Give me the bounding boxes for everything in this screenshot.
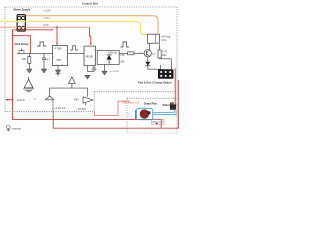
capacitor C2 bbox=[88, 66, 97, 72]
svg-text:(OKI): (OKI) bbox=[161, 39, 167, 42]
IC U1 555 timer bbox=[53, 46, 68, 66]
motor shaft bbox=[148, 111, 150, 114]
svg-text:4.7K: 4.7K bbox=[162, 50, 168, 54]
wire R3 bottom to switch bbox=[160, 58, 172, 69]
wire pink notch feed bbox=[95, 101, 130, 115]
buzzer triangle bbox=[46, 96, 54, 100]
motor M1 body bbox=[140, 110, 149, 119]
resistor R3 bbox=[158, 50, 161, 58]
diode D2 bbox=[107, 55, 112, 65]
svg-text:+12V in: +12V in bbox=[17, 99, 26, 102]
buzzer stem bbox=[52, 100, 54, 113]
wire click delay rail bbox=[17, 52, 53, 54]
svg-text:28BYJ-48: 28BYJ-48 bbox=[152, 121, 164, 124]
switch S2 DPDT fwd-rev bbox=[158, 69, 174, 79]
pink label box bbox=[152, 120, 165, 125]
pin stub 555 left bbox=[51, 52, 53, 54]
wire sense out bbox=[119, 52, 127, 54]
wire red switch right down bbox=[174, 68, 176, 102]
giant pan box dashed border left bbox=[126, 98, 128, 133]
wire red bottom bus bbox=[53, 80, 178, 128]
svg-text:+4.2V out: +4.2V out bbox=[55, 107, 66, 110]
motor M1 box bbox=[136, 108, 152, 119]
svg-text:555: 555 bbox=[57, 58, 62, 62]
pin ticks U2 bbox=[84, 50, 95, 60]
svg-text:Control Box: Control Box bbox=[82, 2, 98, 6]
ground arrow U2 bbox=[85, 75, 90, 79]
ground zener D1 bbox=[55, 70, 60, 76]
control box dashed border notch bbox=[93, 92, 95, 112]
triangle device T2 bbox=[69, 77, 76, 88]
wire red mains left rail bbox=[13, 30, 162, 128]
pin stub U2 bottom1 bbox=[87, 66, 89, 72]
ground symbol bottom left bbox=[7, 125, 11, 131]
diode D3 bbox=[145, 57, 160, 69]
svg-text:OK But: OK But bbox=[78, 108, 86, 111]
control box dashed border bottom-left bbox=[5, 110, 94, 112]
pin stub sense bottom bbox=[104, 64, 106, 71]
wire red branch to click delay bbox=[13, 30, 31, 54]
resistor R1 bbox=[28, 57, 31, 64]
svg-text:MPS: MPS bbox=[139, 53, 144, 55]
battery holder B1 bbox=[170, 103, 176, 110]
wire salmon drop to IC2 bbox=[90, 27, 91, 43]
wire reg to Q1 bbox=[148, 43, 150, 50]
pulse waveform glyph 3 bbox=[121, 42, 130, 47]
wire blue motor to battery A bbox=[153, 110, 175, 113]
control box dashed border top bbox=[5, 6, 177, 8]
svg-text:= ground: = ground bbox=[12, 128, 22, 131]
net +5.2V orange bus bbox=[21, 16, 158, 34]
svg-text:no LOPR: no LOPR bbox=[110, 71, 119, 73]
switch S1 pushbutton bbox=[19, 49, 25, 54]
wire to D42 bbox=[87, 88, 89, 97]
svg-text:4 7&8: 4 7&8 bbox=[55, 47, 62, 51]
net GND salmon bus bbox=[0, 26, 90, 28]
junction dot bbox=[12, 99, 14, 101]
transistor T1 device bbox=[23, 77, 34, 92]
ground arrow sense bbox=[102, 71, 107, 75]
wire red stub to border left bbox=[6, 99, 13, 101]
junction dot motor bbox=[156, 123, 158, 125]
svg-text:15k: 15k bbox=[120, 60, 125, 64]
pin ticks 555 bbox=[53, 50, 68, 66]
ground arrow R1 bbox=[27, 69, 32, 73]
arrowhead at IC2 bbox=[90, 43, 92, 45]
svg-text:4-pin motor +5V: 4-pin motor +5V bbox=[122, 102, 140, 105]
wire 555 out to IC2 bbox=[68, 52, 85, 54]
junction dot bbox=[56, 26, 58, 28]
wire R1 bottom bbox=[28, 63, 30, 69]
op-amp D42 bbox=[83, 97, 93, 106]
svg-text:4.8V ok: 4.8V ok bbox=[108, 51, 117, 55]
pulse waveform glyph 1 bbox=[37, 42, 47, 46]
net +5V yellow bus bbox=[0, 22, 148, 35]
ground arrow C1 bbox=[41, 69, 46, 73]
wire R2 to Q1 bbox=[134, 52, 144, 54]
wire mid bus bbox=[50, 88, 88, 96]
svg-text:Res: Res bbox=[162, 53, 167, 57]
capacitor C1 bbox=[42, 53, 46, 69]
svg-text:GND: GND bbox=[43, 23, 49, 27]
wire blue motor to battery B bbox=[153, 110, 176, 114]
junction dot bbox=[51, 29, 53, 31]
transistor Q1 bbox=[144, 50, 151, 57]
voltage regulator U3 bbox=[148, 34, 160, 43]
wire salmon drop to 555 bbox=[56, 27, 58, 43]
svg-text:Fwd & Rev / Charge Switch: Fwd & Rev / Charge Switch bbox=[138, 81, 172, 85]
svg-text:Click Delay: Click Delay bbox=[14, 42, 29, 46]
wire R1 top bbox=[28, 53, 30, 56]
pulse waveform glyph 2 bbox=[70, 46, 78, 50]
svg-text:4.7: 4.7 bbox=[47, 58, 51, 62]
pin stub 555 bottom bbox=[57, 66, 59, 71]
IC U2 comparator bbox=[84, 46, 95, 66]
svg-text:+5.0V: +5.0V bbox=[43, 16, 50, 20]
giant pan box dashed border top bbox=[127, 97, 177, 99]
svg-text:D42: D42 bbox=[74, 98, 79, 102]
wire red motor feed stub bbox=[135, 110, 137, 119]
control box dashed border left bbox=[4, 7, 6, 111]
giant pan box dashed border bottom bbox=[127, 132, 177, 134]
svg-text:+ 5.2V: + 5.2V bbox=[43, 9, 51, 13]
arrowhead at 555 bbox=[56, 43, 58, 45]
svg-text:4E-5B: 4E-5B bbox=[86, 55, 93, 59]
wire R3 top bbox=[159, 44, 161, 50]
svg-text:Giant Pan: Giant Pan bbox=[144, 102, 157, 106]
wire red under connector bbox=[13, 29, 53, 31]
sub box voltage sense bbox=[97, 50, 119, 64]
svg-text:Mains Supply: Mains Supply bbox=[14, 8, 31, 12]
control box dashed border right bbox=[176, 7, 178, 134]
svg-text:10k: 10k bbox=[22, 57, 27, 61]
control box dashed border bottom-right bbox=[94, 91, 176, 93]
resistor R2 horizontal bbox=[128, 52, 135, 55]
connector J1 mains header bbox=[17, 15, 25, 31]
